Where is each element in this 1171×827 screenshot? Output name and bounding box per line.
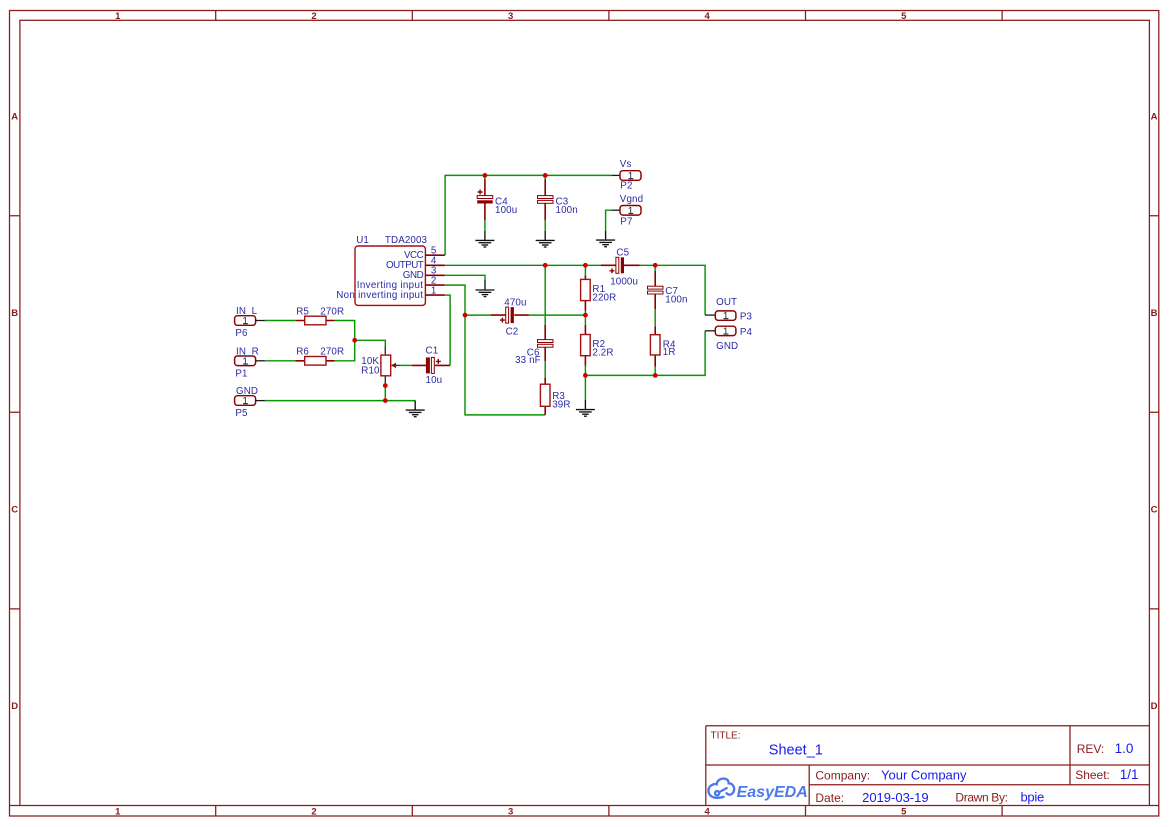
junction node R1/output bus (583, 263, 588, 268)
capacitor C1 plus sign (436, 359, 441, 364)
ground for GND bus P5 (406, 401, 425, 417)
svg-text:220R: 220R (592, 292, 616, 303)
svg-text:Vs: Vs (620, 159, 632, 170)
svg-text:A: A (11, 112, 18, 123)
junction node R4/bus (653, 373, 658, 378)
capacitor C1 pins (412, 364, 450, 366)
resistor R3 pins (544, 378, 546, 415)
svg-text:IN_L: IN_L (236, 306, 258, 317)
svg-text:C: C (11, 505, 18, 516)
wire GND port P5 bus (265, 400, 415, 402)
svg-text:270R: 270R (320, 306, 344, 317)
resistor R1 pins (584, 275, 586, 311)
svg-text:B: B (11, 308, 18, 319)
svg-text:270R: 270R (320, 347, 344, 358)
svg-text:P7: P7 (620, 216, 632, 227)
row letters left (11, 112, 18, 713)
wire pot wiper to C1 (399, 364, 412, 366)
port P4 GND pin (705, 330, 715, 332)
svg-text:Date:: Date: (815, 791, 844, 805)
svg-text:1R: 1R (663, 347, 676, 358)
resistor R6 body (305, 357, 326, 366)
svg-text:GND: GND (716, 341, 738, 352)
svg-text:1000u: 1000u (610, 277, 638, 288)
svg-text:D: D (1151, 701, 1158, 712)
svg-text:Company:: Company: (815, 768, 870, 782)
svg-text:TDA2003: TDA2003 (385, 235, 428, 246)
svg-text:P1: P1 (235, 368, 247, 379)
wire VCC pin5 up and across to Vs port (445, 175, 611, 255)
capacitor C5 plus sign (610, 268, 615, 273)
port P7 Vgnd box (620, 206, 641, 216)
svg-text:100u: 100u (495, 205, 517, 216)
capacitor C4 plates (477, 196, 493, 199)
svg-text:R6: R6 (296, 347, 309, 358)
ground for pin 3 (476, 280, 495, 296)
svg-text:Vgnd: Vgnd (620, 194, 643, 205)
wire R2 node down to ground (584, 375, 586, 400)
svg-text:C5: C5 (616, 247, 629, 258)
svg-text:2.2R: 2.2R (592, 348, 613, 359)
svg-text:C1: C1 (426, 346, 439, 357)
capacitor C2 plus sign (500, 318, 505, 323)
svg-text:1.0: 1.0 (1115, 741, 1134, 756)
svg-text:100n: 100n (556, 205, 578, 216)
svg-text:TITLE:: TITLE: (711, 731, 741, 742)
bottom ruler ticks (216, 806, 1002, 817)
svg-text:10u: 10u (426, 375, 443, 386)
column numbers bottom (115, 806, 907, 817)
wire C4 bottom to ground (484, 220, 486, 231)
wire GND pin3 to ground (445, 275, 485, 280)
svg-text:1: 1 (242, 316, 248, 327)
wire R4 bottom to bus (654, 367, 656, 376)
svg-text:A: A (1151, 112, 1158, 123)
svg-text:C: C (1151, 505, 1158, 516)
wire C6 bottom to R3 top (544, 361, 546, 378)
U1 pin names (336, 250, 424, 301)
ground for R2 node (576, 400, 595, 416)
svg-text:OUT: OUT (716, 297, 737, 308)
capacitor C5 plates (616, 257, 619, 273)
port P1 IN_R box (235, 356, 256, 366)
port P6 pin (256, 320, 265, 322)
title block lines (706, 726, 1150, 806)
wire R1 bottom to node (584, 311, 586, 315)
svg-text:D: D (11, 701, 18, 712)
wire node to R2 top (584, 315, 586, 325)
resistor R4 body (650, 335, 660, 355)
svg-text:33 nF: 33 nF (515, 355, 541, 366)
junction node C3/top bus (543, 173, 548, 178)
wire R6 to junction (335, 340, 355, 361)
junction node pot bottom (383, 383, 388, 388)
capacitor C1 plates (426, 357, 430, 373)
svg-text:39R: 39R (552, 399, 570, 410)
wire node to C7 top (654, 265, 656, 271)
svg-text:IN_R: IN_R (236, 347, 259, 358)
wire OUTPUT pin4 to C5 left (445, 264, 601, 266)
port P3 box (715, 311, 736, 320)
left ruler ticks (10, 216, 20, 806)
U1 pin 2 Inverting input stub (425, 284, 445, 286)
capacitor C7 pins (654, 271, 656, 309)
wire Vgnd port to ground (606, 210, 612, 230)
svg-text:1/1: 1/1 (1120, 767, 1139, 782)
potentiometer R10 top pin (384, 346, 386, 355)
capacitor C2 plates (506, 307, 509, 323)
port P1 pin (256, 360, 265, 362)
svg-text:2019-03-19: 2019-03-19 (862, 790, 929, 805)
right ruler ticks (1149, 216, 1158, 806)
port P4 box (715, 326, 736, 335)
capacitor C7 plates (648, 286, 664, 289)
svg-text:U1: U1 (356, 235, 369, 246)
junction node C7/output bus (653, 263, 658, 268)
U1 pin numbers (431, 246, 437, 297)
potentiometer R10 bottom pin (384, 376, 386, 386)
svg-text:3: 3 (508, 11, 513, 22)
svg-text:470u: 470u (504, 297, 526, 308)
wire pin2 down and along bottom to R3 (445, 285, 545, 415)
svg-text:bpie: bpie (1021, 789, 1044, 804)
svg-text:Sheet_1: Sheet_1 (769, 742, 823, 758)
svg-text:1: 1 (115, 11, 121, 22)
svg-text:2: 2 (311, 806, 316, 817)
svg-text:Sheet:: Sheet: (1075, 768, 1110, 782)
junction node C6/output bus (543, 263, 548, 268)
svg-text:GND: GND (236, 386, 258, 397)
row letters right (1151, 112, 1158, 713)
junction node R5/R6 (352, 338, 357, 343)
junction node C2 left (463, 313, 468, 318)
svg-text:REV:: REV: (1077, 742, 1105, 756)
wire stub dot to C4 (484, 175, 486, 179)
wire junction to C2 left (465, 314, 491, 316)
svg-text:3: 3 (508, 806, 513, 817)
capacitor C2 pins (491, 314, 529, 316)
wire C5 right to corner down to P3 (640, 265, 706, 315)
wire C7 bottom to R4 top (654, 309, 656, 326)
capacitor C6 pins (544, 325, 546, 361)
svg-text:1: 1 (431, 286, 437, 297)
wire pot bottom to GND bus (384, 386, 386, 401)
port P5 pin (256, 400, 265, 402)
svg-text:Your Company: Your Company (881, 767, 967, 782)
capacitor C4 plus sign (478, 190, 483, 195)
svg-text:R10: R10 (361, 366, 380, 377)
capacitor C3 plates (538, 196, 554, 199)
svg-text:P5: P5 (235, 408, 248, 419)
port P7 Vgnd pin (611, 209, 620, 211)
op-amp IC U1 TDA2003 body (355, 246, 425, 305)
resistor R2 pins (584, 325, 586, 366)
svg-text:1: 1 (723, 311, 729, 322)
svg-text:P6: P6 (235, 328, 248, 339)
resistor R5 body (305, 316, 326, 325)
resistor R5 pins (295, 320, 334, 322)
resistor R3 body (540, 384, 550, 406)
wire R5 to junction (335, 321, 355, 341)
junction node pot/GND bus (383, 398, 388, 403)
top ruler ticks (216, 11, 1002, 21)
port P2 Vs box (620, 171, 641, 181)
svg-text:1: 1 (242, 396, 248, 407)
junction node C4/top bus (483, 173, 488, 178)
svg-text:P2: P2 (620, 181, 632, 192)
ground for Vgnd P7 (596, 231, 615, 247)
junction node C2 right R1/R2 (583, 313, 588, 318)
resistor R4 pins (654, 326, 656, 367)
U1 pin 1 Non inverting input stub (425, 294, 445, 296)
capacitor C3 pins (544, 180, 546, 221)
svg-text:4: 4 (705, 806, 711, 817)
wire pin1 down to C1 (445, 295, 450, 365)
wire IN_R port to R6 (265, 360, 295, 362)
wire bottom bus to P4 (585, 331, 705, 376)
svg-text:Drawn By:: Drawn By: (955, 790, 1007, 804)
wire C2 right to R1/R2 node (529, 314, 586, 316)
wire R2 bottom to node (584, 366, 586, 376)
capacitor C5 pins (601, 264, 640, 266)
ground for C4 (475, 231, 494, 247)
port P3 OUT pin (705, 314, 715, 316)
svg-text:C2: C2 (506, 326, 519, 337)
potentiometer R10 wiper arrow (391, 363, 396, 368)
svg-text:Non inverting input: Non inverting input (336, 290, 423, 301)
column numbers top (115, 11, 907, 22)
wire stub dot to C3 (544, 175, 546, 179)
U1 pin 4 OUTPUT stub (425, 264, 445, 266)
svg-text:1: 1 (115, 806, 121, 817)
svg-text:EasyEDA: EasyEDA (737, 784, 808, 801)
svg-text:2: 2 (311, 11, 316, 22)
svg-text:R5: R5 (296, 306, 309, 317)
EasyEDA logo cloud (708, 779, 734, 798)
port P6 IN_L box (235, 316, 256, 326)
wire junction to pot top (355, 340, 386, 346)
U1 pin 5 VCC stub (425, 254, 445, 256)
wire node to R1 top (584, 265, 586, 275)
port P2 Vs pin (611, 174, 620, 176)
wire node down to C6 top (544, 265, 546, 325)
svg-text:P4: P4 (740, 327, 753, 338)
svg-text:4: 4 (705, 11, 711, 22)
svg-text:1: 1 (723, 327, 729, 338)
wire C3 bottom to ground (544, 220, 546, 231)
svg-text:5: 5 (901, 11, 907, 22)
potentiometer R10 body (381, 355, 391, 376)
U1 pin 3 GND stub (425, 274, 445, 276)
svg-text:100n: 100n (665, 294, 687, 305)
svg-text:1: 1 (242, 357, 248, 368)
svg-text:B: B (1151, 308, 1158, 319)
svg-text:P3: P3 (740, 311, 753, 322)
port P5 GND box (235, 396, 256, 406)
resistor R6 pins (295, 360, 334, 362)
wire IN_L port to R5 (265, 320, 295, 322)
svg-text:5: 5 (901, 806, 907, 817)
capacitor C4 pins (484, 180, 486, 221)
ground for C3 (536, 231, 555, 247)
junction node R2/bus (583, 373, 588, 378)
resistor R2 body (581, 335, 591, 356)
resistor R1 body (581, 279, 591, 300)
capacitor C6 plates (538, 340, 554, 343)
